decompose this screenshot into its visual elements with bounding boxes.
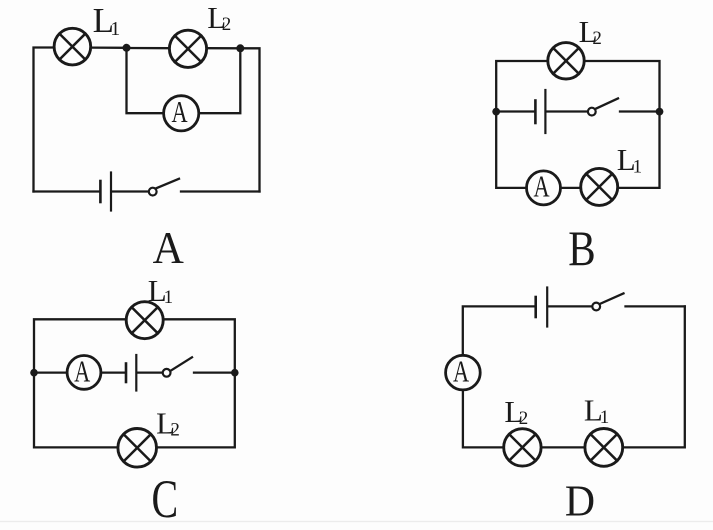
wire switch to right node: [620, 110, 660, 112]
node middle-right: [656, 108, 664, 116]
wire bottom-right of C: [157, 373, 235, 448]
label L1: [93, 1, 121, 40]
wire L1 to node: [93, 46, 127, 49]
label L2 of B: [579, 14, 602, 49]
lamp L2: [118, 429, 157, 468]
wire ammeter to battery: [101, 371, 125, 373]
ammeter A: [446, 355, 481, 390]
wire battery to switch: [112, 190, 148, 192]
svg-text:2: 2: [222, 14, 232, 35]
svg-text:A: A: [453, 354, 470, 388]
node middle-left: [492, 108, 500, 116]
svg-text:2: 2: [519, 408, 529, 429]
switch: [588, 98, 618, 115]
lamp L1: [581, 168, 618, 205]
battery: [536, 288, 548, 327]
wire switch to top-right corner: [626, 305, 685, 307]
label L1 of D: [584, 393, 609, 428]
svg-text:C: C: [151, 471, 178, 530]
wire ammeter branch right rise: [199, 48, 240, 113]
wire bottom-left to battery: [34, 190, 100, 192]
ammeter A: [67, 356, 101, 390]
switch: [163, 357, 192, 376]
wire ammeter to lamp L1: [561, 187, 581, 189]
svg-text:B: B: [568, 220, 595, 275]
label A1 meter letter: [171, 95, 188, 129]
node junction left: [123, 44, 131, 52]
svg-text:1: 1: [600, 407, 610, 428]
label L2 of D: [504, 394, 528, 429]
label L1 of C: [148, 273, 173, 308]
node middle-left: [30, 369, 38, 377]
svg-text:1: 1: [110, 18, 120, 40]
wire switch to bottom-right: [181, 190, 260, 192]
svg-text:D: D: [565, 477, 595, 525]
label option A: [153, 222, 184, 274]
wire battery to switch: [546, 110, 587, 112]
battery: [100, 173, 111, 211]
svg-text:2: 2: [170, 420, 180, 441]
wire top-right corner and right rail: [240, 48, 259, 191]
svg-text:A: A: [74, 354, 91, 388]
lamp L1: [585, 429, 623, 467]
svg-text:A: A: [171, 95, 188, 129]
wire left node to ammeter: [34, 371, 67, 373]
wire ammeter branch left drop: [127, 48, 164, 113]
label option C: [151, 471, 178, 530]
lamp L1: [126, 302, 163, 339]
wire bottom-left of C: [34, 373, 118, 448]
wire battery to switch: [137, 371, 162, 373]
wire top-right of B: [585, 61, 659, 112]
faint page rule at bottom: [0, 521, 713, 523]
svg-text:2: 2: [592, 28, 602, 49]
lamp L1: [54, 28, 91, 65]
wire left node to battery: [496, 110, 534, 112]
wire right rail of D: [623, 306, 685, 447]
wire bottom-left of B: [496, 112, 526, 188]
wire L2 to node: [208, 47, 241, 49]
wire top-left of B: [496, 61, 546, 112]
wire L2 to L1: [542, 446, 585, 448]
node middle-right: [231, 369, 239, 377]
switch: [592, 293, 623, 310]
ammeter A: [527, 171, 561, 205]
svg-text:A: A: [534, 169, 551, 203]
battery: [126, 355, 136, 391]
wire node to L2: [127, 47, 169, 50]
wire top-left of C: [34, 319, 126, 372]
wire top-left segment: [34, 48, 54, 192]
svg-text:1: 1: [633, 156, 643, 177]
label A4 meter letter: [453, 354, 470, 388]
wire bottom-right of B: [618, 112, 659, 188]
lamp L2: [548, 43, 584, 79]
ammeter A: [164, 96, 199, 131]
label option B: [568, 220, 595, 275]
wire switch to right node: [194, 371, 235, 373]
label A2 meter letter: [534, 169, 551, 203]
lamp L2: [504, 429, 541, 466]
battery: [535, 90, 545, 133]
node junction right: [236, 44, 244, 52]
svg-text:A: A: [153, 222, 184, 274]
wire top-right of C: [163, 319, 234, 372]
switch: [149, 179, 179, 196]
wire left rail lower of D: [463, 390, 503, 448]
wire top-left of D: [463, 306, 535, 355]
label A3 meter letter: [74, 354, 91, 388]
wire battery to switch: [548, 305, 592, 307]
svg-text:1: 1: [164, 287, 174, 308]
label L1 of B: [617, 142, 642, 177]
label option D: [565, 477, 595, 525]
lamp L2: [169, 30, 206, 67]
label L2 of C: [156, 405, 180, 440]
label L2: [207, 0, 231, 35]
